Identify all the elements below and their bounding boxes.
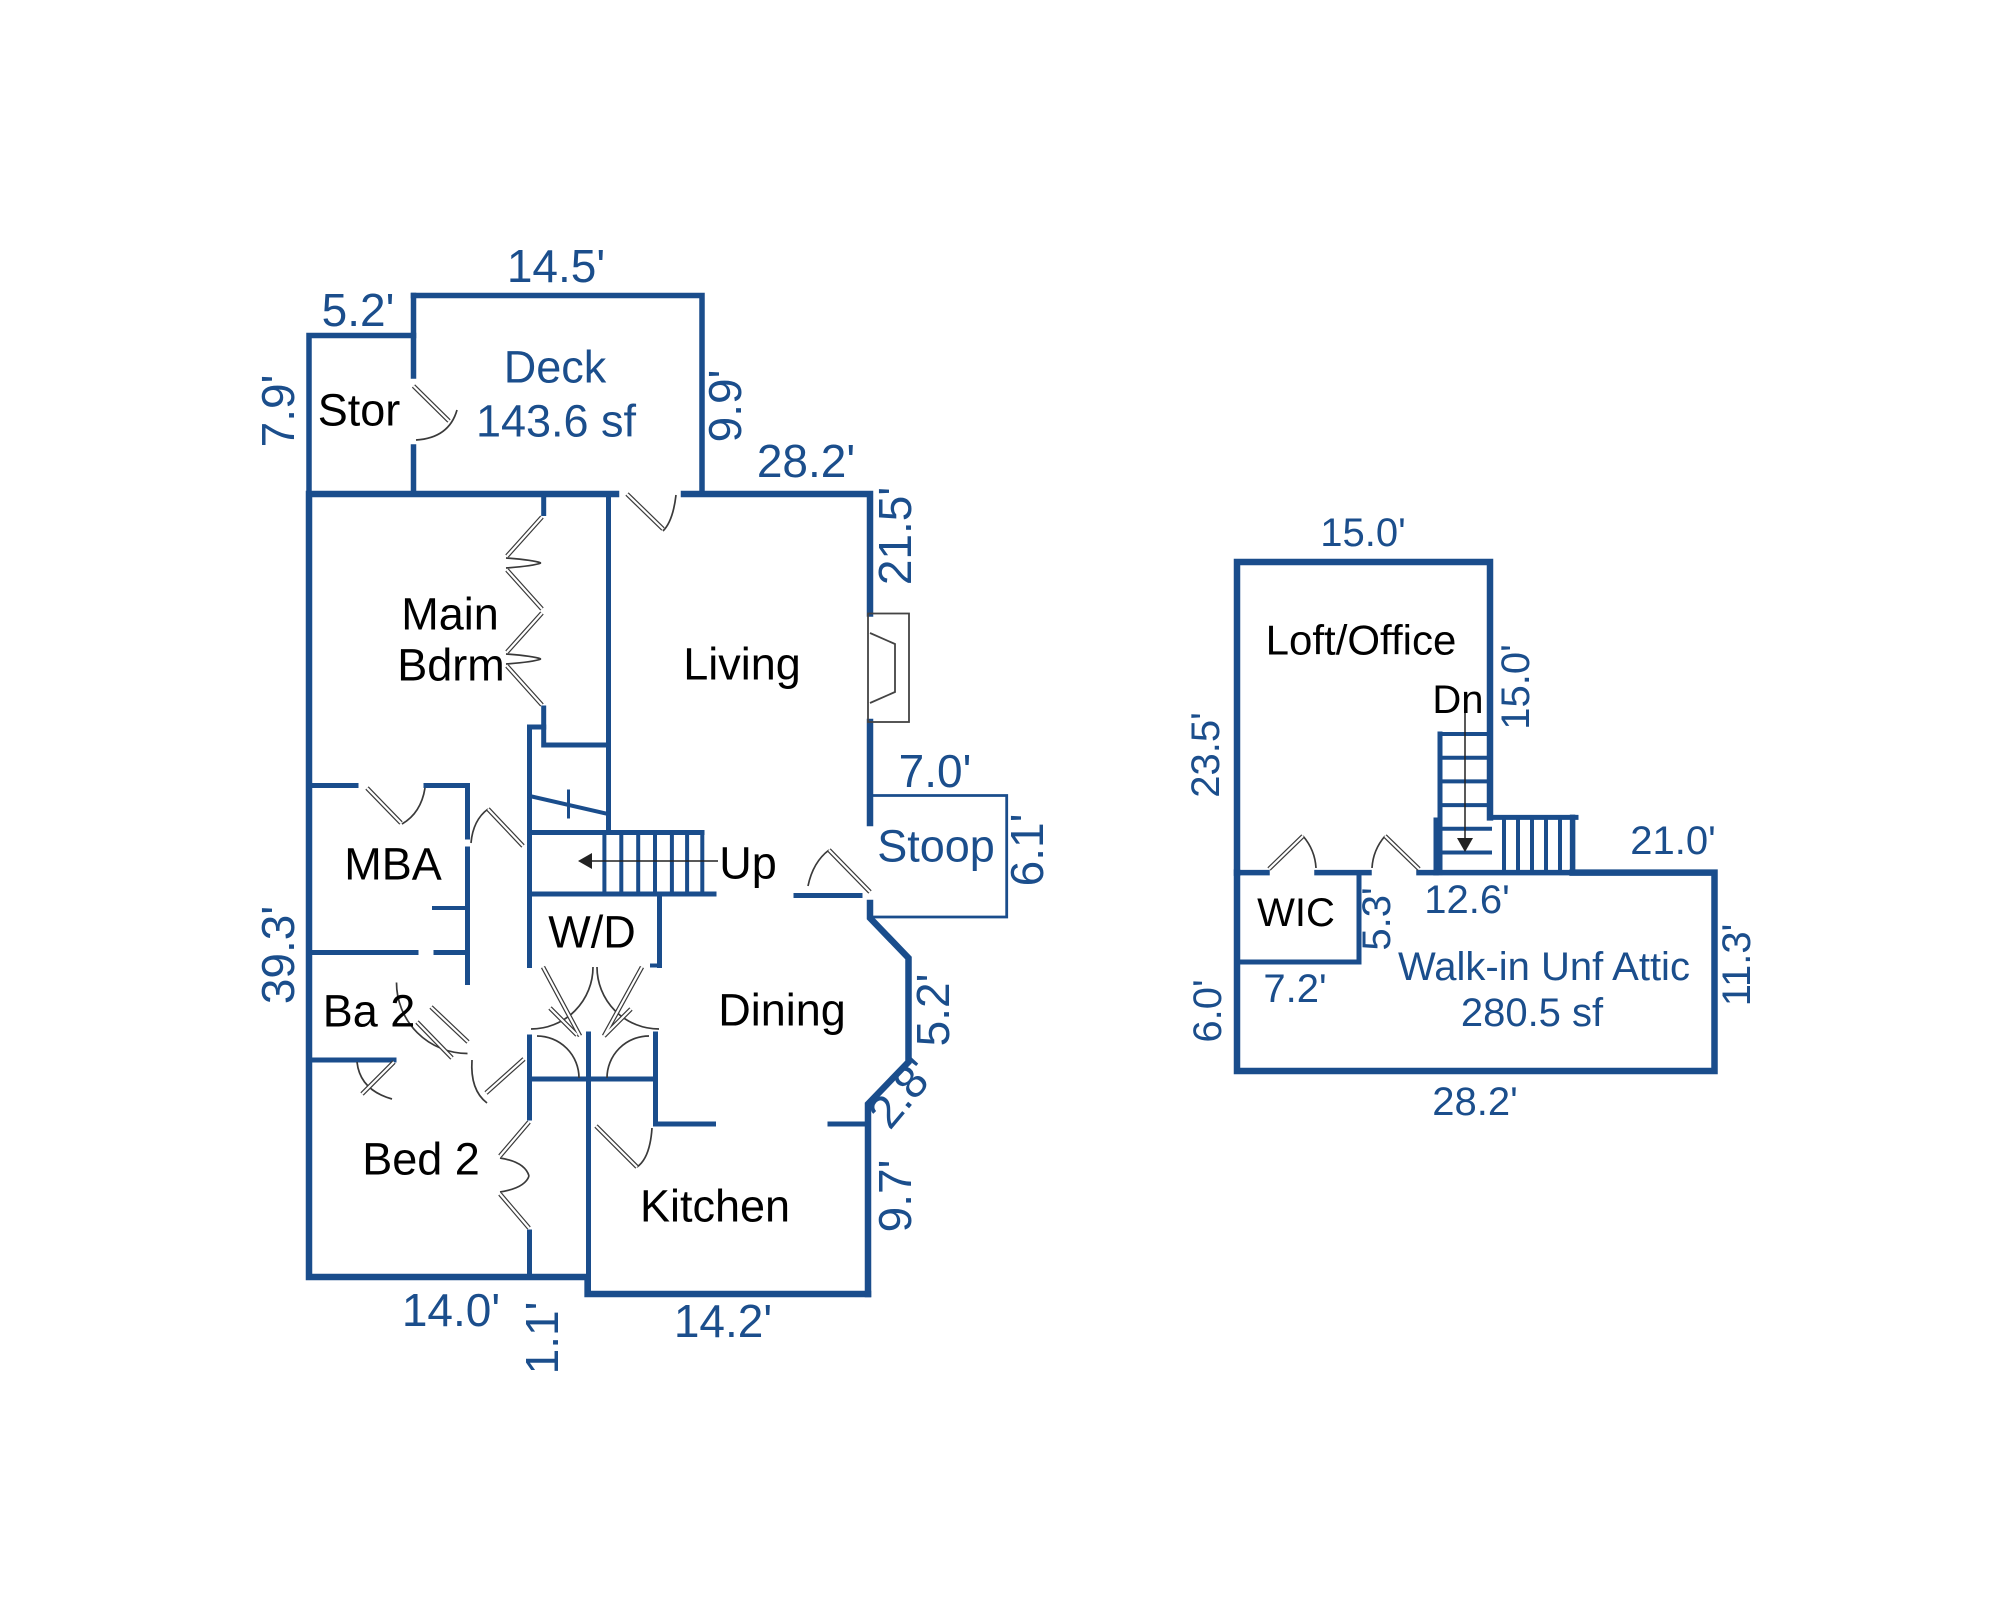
svg-text:14.5': 14.5' [507, 240, 605, 292]
svg-text:21.5': 21.5' [869, 487, 921, 585]
svg-text:Loft/Office: Loft/Office [1266, 617, 1457, 664]
svg-text:Ba 2: Ba 2 [323, 986, 416, 1037]
svg-text:Bdrm: Bdrm [397, 640, 505, 691]
svg-text:280.5 sf: 280.5 sf [1461, 991, 1604, 1035]
svg-text:MBA: MBA [344, 839, 442, 890]
svg-text:14.0': 14.0' [402, 1284, 500, 1336]
svg-text:7.2': 7.2' [1263, 967, 1326, 1011]
svg-text:WIC: WIC [1257, 891, 1335, 935]
svg-text:143.6 sf: 143.6 sf [476, 396, 637, 447]
svg-text:7.0': 7.0' [899, 745, 972, 797]
svg-text:Walk-in Unf Attic: Walk-in Unf Attic [1398, 945, 1690, 989]
svg-text:Stoop: Stoop [877, 821, 995, 872]
svg-text:11.3': 11.3' [1715, 924, 1759, 1007]
svg-text:Deck: Deck [504, 342, 607, 393]
svg-text:Bed 2: Bed 2 [362, 1134, 480, 1185]
svg-text:Dn: Dn [1432, 678, 1483, 722]
svg-text:Up: Up [719, 838, 777, 889]
svg-text:6.1': 6.1' [1001, 814, 1053, 887]
svg-text:9.7': 9.7' [869, 1160, 921, 1233]
svg-text:15.0': 15.0' [1494, 644, 1538, 730]
svg-text:39.3': 39.3' [252, 906, 304, 1004]
svg-text:15.0': 15.0' [1320, 511, 1406, 555]
svg-text:23.5': 23.5' [1184, 712, 1228, 798]
svg-text:5.2': 5.2' [322, 284, 395, 336]
svg-text:9.9': 9.9' [699, 370, 751, 443]
svg-text:Living: Living [683, 639, 801, 690]
svg-text:6.0': 6.0' [1186, 979, 1230, 1042]
svg-text:Kitchen: Kitchen [640, 1181, 790, 1232]
svg-text:7.9': 7.9' [252, 375, 304, 448]
svg-text:Main: Main [401, 589, 499, 640]
svg-text:28.2': 28.2' [1432, 1080, 1518, 1124]
svg-text:5.2': 5.2' [907, 974, 959, 1047]
svg-text:Dining: Dining [718, 985, 846, 1036]
svg-text:1.1': 1.1' [516, 1302, 568, 1375]
svg-text:28.2': 28.2' [757, 435, 855, 487]
svg-text:Stor: Stor [318, 385, 401, 436]
svg-text:W/D: W/D [548, 907, 635, 958]
svg-text:5.3': 5.3' [1355, 887, 1399, 950]
svg-text:21.0': 21.0' [1630, 819, 1716, 863]
svg-text:14.2': 14.2' [674, 1295, 772, 1347]
svg-text:12.6': 12.6' [1424, 878, 1510, 922]
